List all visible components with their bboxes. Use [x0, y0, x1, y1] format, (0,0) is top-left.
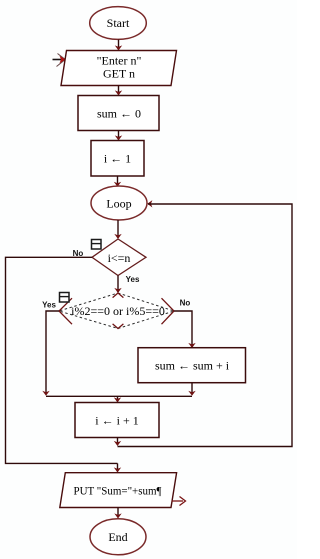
svg-text:Start: Start [107, 16, 130, 30]
svg-text:PUT "Sum="+sum¶: PUT "Sum="+sum¶ [74, 484, 163, 498]
arrowhead into Loop [114, 182, 121, 187]
arrowhead into End [114, 513, 121, 518]
svg-text:i%2==0 or i%5==0: i%2==0 or i%5==0 [71, 304, 165, 318]
wire i1 to Loop [117, 176, 119, 186]
wire Start to GET [118, 40, 120, 50]
selection arrow at GET [53, 54, 66, 67]
wire sum box to merge line [191, 383, 193, 394]
svg-text:"Enter n": "Enter n" [97, 54, 142, 68]
arrowhead into sum box [188, 343, 195, 348]
svg-text:i ← i + 1: i ← i + 1 [95, 414, 138, 428]
assignment box i = 1 [91, 141, 144, 177]
io parallelogram GET n [61, 51, 177, 86]
svg-text:GET n: GET n [103, 67, 135, 81]
wire i+1 box down to loopback [117, 438, 119, 445]
wire sum0 to i1 [118, 131, 120, 140]
wire Yes branch: left then down [46, 311, 59, 394]
svg-text:Yes: Yes [42, 301, 56, 310]
oval Loop [91, 186, 147, 220]
decision diamond i<=n [92, 239, 146, 276]
svg-text:End: End [108, 530, 127, 544]
svg-text:Yes: Yes [126, 275, 140, 284]
svg-text:i<=n: i<=n [108, 251, 131, 265]
wire No branch: left then down then right [6, 257, 118, 463]
svg-text:sum ← 0: sum ← 0 [97, 107, 141, 121]
arrowhead into Loop from loopback [147, 200, 152, 207]
wire GET to sum0 [118, 86, 120, 95]
arrowhead into i1 [115, 135, 122, 140]
arrowhead into dashed diamond [114, 288, 121, 293]
svg-text:Loop: Loop [106, 197, 131, 211]
arrowhead onto merge line [188, 391, 195, 396]
comment icon on diamond [92, 240, 102, 250]
wire merge to i+1 box [117, 396, 119, 401]
arrowhead into sum0 [115, 90, 122, 95]
arrowhead into PUT [114, 467, 121, 472]
merge line [46, 395, 192, 397]
arrowhead into i+1 box [114, 397, 121, 402]
svg-text:i ← 1: i ← 1 [104, 152, 131, 166]
wire No branch drop into PUT [117, 463, 119, 471]
assignment box sum = sum + i [138, 348, 246, 383]
assignment box sum = 0 [78, 96, 159, 131]
svg-text:No: No [180, 299, 191, 308]
wire No branch: right then down [174, 311, 192, 347]
arrowhead into GET [115, 45, 122, 50]
arrowhead at loopback junction [114, 441, 121, 446]
io parallelogram PUT [60, 473, 177, 508]
assignment box i = i + 1 [75, 403, 159, 438]
exit arrow right of PUT [172, 497, 186, 506]
loopback wire right side up to Loop [118, 204, 293, 447]
svg-text:sum ← sum + i: sum ← sum + i [155, 359, 230, 373]
comment icon on dashed diamond [60, 293, 70, 303]
wire diamond to dashed diamond [117, 276, 119, 293]
wire PUT to End [117, 508, 119, 518]
arrowhead Yes branch onto merge line [42, 391, 49, 396]
dashed decision diamond i%2==0 or i%5==0 [59, 293, 174, 329]
oval End [90, 519, 146, 555]
wire Loop to diamond [117, 220, 119, 238]
oval Start [90, 7, 147, 40]
arrowhead into diamond [114, 234, 121, 239]
